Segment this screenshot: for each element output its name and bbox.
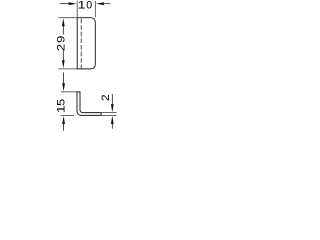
svg-text:1: 1 — [78, 0, 86, 11]
svg-text:2: 2 — [101, 94, 112, 101]
svg-text:1: 1 — [55, 105, 67, 113]
svg-text:0: 0 — [86, 0, 92, 12]
svg-text:2: 2 — [55, 43, 67, 51]
svg-text:9: 9 — [55, 35, 67, 43]
